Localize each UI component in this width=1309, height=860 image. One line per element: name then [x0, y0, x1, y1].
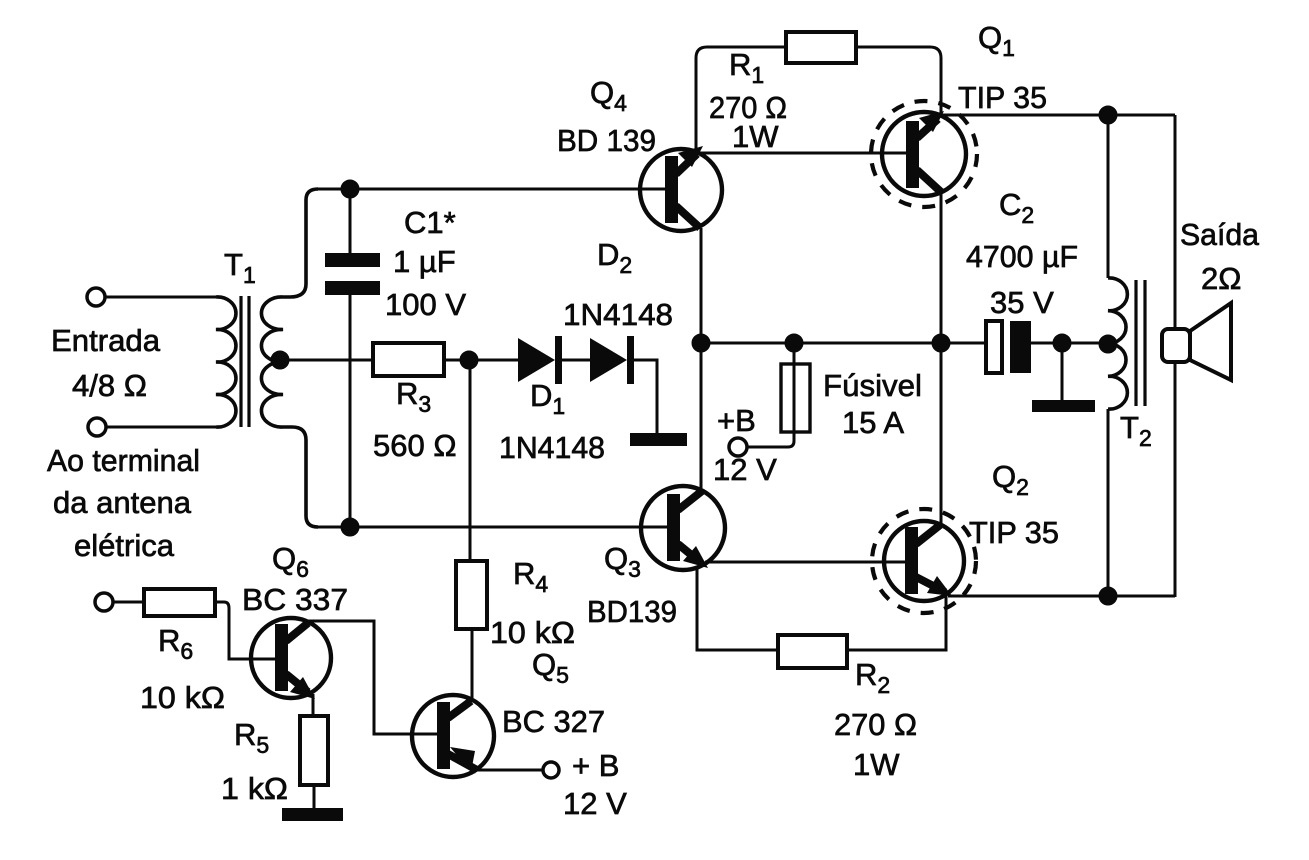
node T2 center tap	[1100, 336, 1116, 352]
svg-text:BC 337: BC 337	[242, 582, 348, 617]
fuse Fusivel 15A	[781, 364, 810, 432]
transistor Q3 BD139	[641, 486, 725, 570]
node top rail / C1	[342, 181, 358, 197]
wire R6 to Q6 base	[215, 602, 276, 659]
svg-text:35 V: 35 V	[990, 285, 1054, 320]
capacitor C1 top plate	[325, 253, 380, 267]
wire R5 to ground	[313, 785, 316, 808]
transistor Q2 TIP35	[872, 509, 976, 613]
capacitor C2 right plate	[1010, 321, 1031, 373]
terminal input bottom	[88, 418, 106, 436]
wire Q3 to R2	[697, 566, 778, 650]
wire C1 top lead	[349, 189, 352, 253]
node bus Q4/Q3	[693, 335, 709, 351]
wire center tap to R3	[281, 359, 373, 362]
node bus Q1/Q2	[933, 335, 949, 351]
svg-text:Saída: Saída	[1180, 217, 1260, 252]
svg-text:1 µF: 1 µF	[393, 244, 456, 279]
svg-text:10 kΩ: 10 kΩ	[490, 615, 575, 650]
wire input top	[105, 296, 216, 299]
resistor R5	[300, 716, 328, 785]
wire D2 cathode to ground	[634, 360, 657, 433]
ground R5	[282, 808, 343, 821]
wire Q4 emitter to Q1 base	[700, 152, 906, 155]
svg-text:1 kΩ: 1 kΩ	[221, 771, 288, 806]
svg-text:15 A: 15 A	[842, 405, 904, 440]
svg-text:270 Ω: 270 Ω	[834, 707, 917, 742]
svg-text:12 V: 12 V	[563, 786, 627, 821]
svg-text:da antena: da antena	[53, 485, 192, 520]
svg-text:4700 µF: 4700 µF	[966, 239, 1078, 274]
wire R1 left lead	[696, 47, 786, 151]
wire ground stem C2	[1061, 343, 1064, 400]
wire Q6 emitter to R5	[312, 694, 315, 716]
wire bottom rail T1 to Q3 base	[318, 526, 668, 529]
wire C2 right to T2 tap	[1031, 342, 1108, 345]
svg-text:BD 139: BD 139	[557, 123, 656, 158]
ground C2	[1032, 400, 1095, 412]
resistor R4	[456, 561, 487, 629]
node top rail / T2	[1100, 107, 1116, 123]
wire Q3 emitter to Q2 base	[705, 561, 905, 564]
svg-text:BD139: BD139	[587, 594, 677, 629]
wire Q2 emitter output rail	[948, 595, 1175, 598]
svg-text:+B: +B	[717, 403, 756, 438]
diode D1	[518, 336, 562, 384]
wire T2 top lead	[1107, 115, 1110, 278]
diode D2	[590, 336, 634, 384]
terminal +B 12V	[729, 438, 747, 456]
wire bus	[701, 342, 986, 345]
resistor R3	[373, 343, 444, 376]
transformer T2 winding	[1108, 278, 1127, 409]
node T1 center tap	[272, 352, 288, 368]
wire R4 to Q5 collector	[471, 629, 474, 702]
terminal input top	[87, 288, 105, 306]
wire T2 bottom lead	[1107, 409, 1110, 596]
svg-text:Ao terminal: Ao terminal	[47, 443, 200, 478]
wire Q6 collector to Q5 base	[308, 621, 438, 734]
transformer T1 core	[241, 296, 249, 427]
svg-text:4/8 Ω: 4/8 Ω	[72, 368, 147, 403]
wire D1 to D2	[562, 359, 590, 362]
svg-text:Entrada: Entrada	[51, 323, 161, 358]
wire top rail to Q4 base	[318, 188, 666, 191]
wire fuse lead	[747, 343, 794, 447]
node output rail / T2	[1100, 588, 1116, 604]
wire Q2 collector to bus	[940, 343, 943, 524]
svg-text:elétrica: elétrica	[74, 528, 175, 563]
wire R3 to node	[444, 359, 518, 362]
wire Q1 emitter top rail	[941, 114, 1175, 117]
svg-text:Fúsivel: Fúsivel	[823, 368, 922, 403]
wire Q4 collector down	[700, 228, 703, 343]
wire R2 to Q2 emitter	[847, 595, 946, 650]
wire C1 bottom lead	[349, 295, 352, 527]
svg-text:TIP 35: TIP 35	[969, 515, 1059, 550]
speaker driver square	[1162, 329, 1190, 362]
terminal +B 12V lower	[543, 762, 559, 778]
node bus fuse	[786, 335, 802, 351]
wire input bottom	[106, 426, 216, 429]
capacitor C2 left plate	[986, 321, 1002, 373]
node C2 ground branch	[1054, 335, 1070, 351]
resistor R1	[786, 32, 856, 63]
wire Q1 collector to bus	[940, 192, 943, 343]
svg-text:TIP 35: TIP 35	[958, 80, 1047, 115]
svg-text:1W: 1W	[853, 747, 900, 782]
svg-text:100 V: 100 V	[385, 287, 466, 322]
svg-text:10 kΩ: 10 kΩ	[140, 680, 225, 715]
wire speaker right rail	[1174, 115, 1177, 597]
wire R1 right lead	[856, 47, 941, 114]
transistor Q6 BC337	[251, 618, 331, 699]
transformer T2 core	[1136, 280, 1145, 406]
wire Q3 collector up	[700, 343, 703, 491]
svg-text:2Ω: 2Ω	[1201, 261, 1241, 296]
svg-text:C1*: C1*	[404, 205, 456, 240]
speaker horn	[1190, 303, 1231, 380]
resistor R6	[144, 589, 215, 616]
svg-text:1N4148: 1N4148	[563, 297, 673, 332]
svg-text:1N4148: 1N4148	[499, 430, 605, 465]
svg-text:1W: 1W	[732, 119, 779, 154]
transistor Q4 BD139	[640, 146, 722, 231]
ground D2	[630, 433, 687, 446]
transistor Q1 TIP35	[871, 101, 977, 207]
svg-text:+ B: + B	[572, 748, 619, 783]
transformer T1 primary winding	[216, 297, 236, 427]
transistor Q5 BC327	[412, 695, 494, 777]
terminal R6 input	[95, 593, 113, 611]
capacitor C1 bottom plate	[325, 281, 380, 295]
svg-text:BC 327: BC 327	[502, 704, 605, 739]
svg-text:560 Ω: 560 Ω	[373, 428, 457, 463]
node bottom rail / C1	[342, 519, 358, 535]
transformer T1 secondary winding	[261, 189, 318, 527]
svg-text:12 V: 12 V	[713, 452, 777, 487]
node R3 / R4	[461, 352, 477, 368]
wire R4 top lead	[469, 360, 472, 561]
wire R6 left lead	[113, 601, 144, 604]
wire Q5 emitter to +B	[477, 769, 543, 772]
resistor R2	[778, 635, 847, 668]
